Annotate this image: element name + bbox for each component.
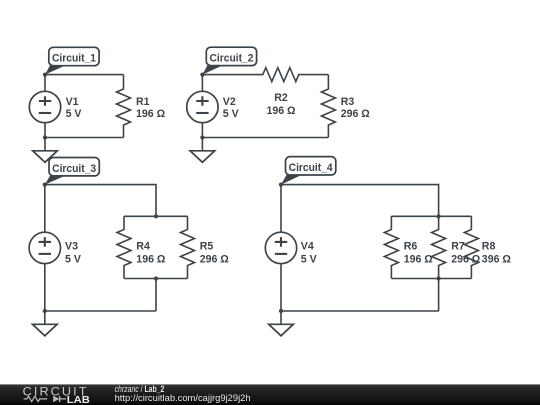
svg-text:LAB: LAB <box>67 395 90 405</box>
svg-text:5 V: 5 V <box>301 253 317 265</box>
svg-text:Circuit_3: Circuit_3 <box>52 163 96 175</box>
svg-text:196 Ω: 196 Ω <box>266 105 296 117</box>
svg-text:http://circuitlab.com/cajjrg9j: http://circuitlab.com/cajjrg9j29j2h <box>115 393 251 403</box>
svg-text:296 Ω: 296 Ω <box>200 253 230 265</box>
svg-text:R5: R5 <box>200 240 214 252</box>
svg-text:R1: R1 <box>136 96 150 108</box>
svg-text:Circuit_1: Circuit_1 <box>52 53 96 65</box>
svg-text:R6: R6 <box>404 240 418 252</box>
svg-text:5 V: 5 V <box>65 253 81 265</box>
svg-text:5 V: 5 V <box>223 108 239 120</box>
svg-text:396 Ω: 396 Ω <box>482 253 512 265</box>
svg-text:R2: R2 <box>274 92 288 104</box>
svg-text:196 Ω: 196 Ω <box>404 253 434 265</box>
svg-text:R8: R8 <box>482 240 496 252</box>
svg-text:296 Ω: 296 Ω <box>341 108 371 120</box>
svg-text:V3: V3 <box>65 240 78 252</box>
svg-text:R7: R7 <box>451 240 465 252</box>
svg-text:196 Ω: 196 Ω <box>136 253 166 265</box>
svg-text:Circuit_4: Circuit_4 <box>289 162 333 174</box>
svg-text:R3: R3 <box>341 96 355 108</box>
svg-text:V1: V1 <box>66 96 79 108</box>
svg-text:V4: V4 <box>301 240 314 252</box>
svg-text:296 Ω: 296 Ω <box>451 253 481 265</box>
svg-text:Circuit_2: Circuit_2 <box>209 53 253 65</box>
svg-text:V2: V2 <box>223 96 236 108</box>
svg-text:5 V: 5 V <box>66 108 82 120</box>
svg-text:196 Ω: 196 Ω <box>136 108 166 120</box>
svg-text:R4: R4 <box>136 240 150 252</box>
